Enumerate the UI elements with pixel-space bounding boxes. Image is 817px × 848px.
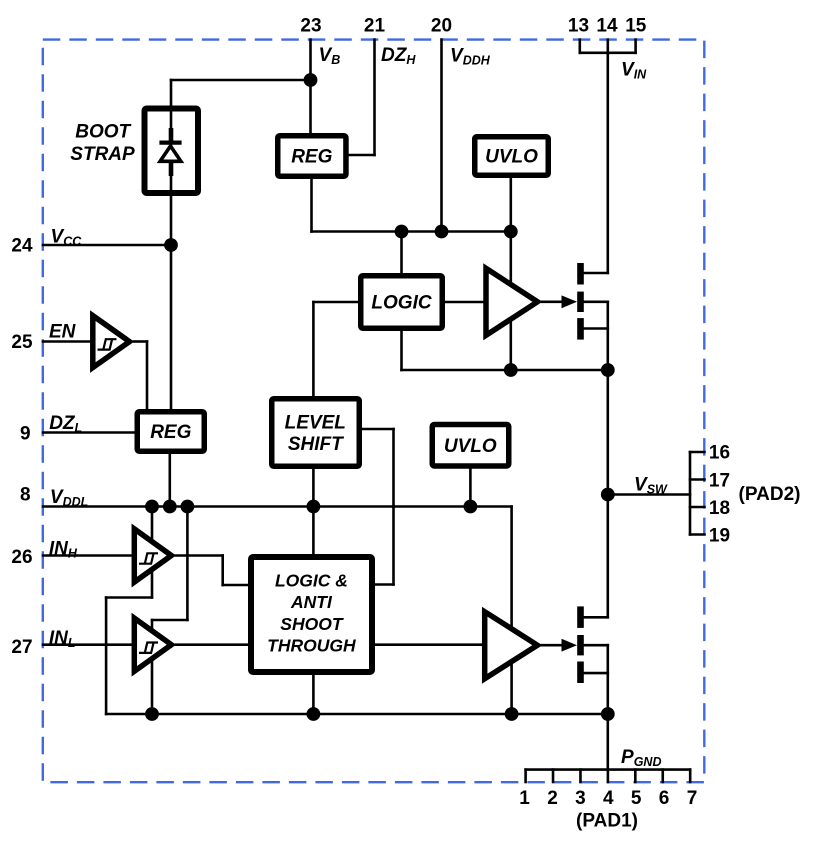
svg-text:21: 21 <box>364 16 386 37</box>
svg-text:SHIFT: SHIFT <box>288 434 344 455</box>
svg-text:LOGIC &: LOGIC & <box>275 571 348 591</box>
svg-text:LEVEL: LEVEL <box>285 413 346 434</box>
svg-text:1: 1 <box>519 788 530 809</box>
svg-text:UVLO: UVLO <box>485 147 538 168</box>
svg-text:7: 7 <box>687 788 698 809</box>
svg-text:5: 5 <box>631 788 642 809</box>
svg-text:UVLO: UVLO <box>444 436 497 457</box>
svg-text:23: 23 <box>300 16 321 37</box>
svg-text:27: 27 <box>11 637 32 658</box>
svg-text:15: 15 <box>625 16 647 37</box>
svg-text:9: 9 <box>20 424 31 445</box>
svg-text:BOOT: BOOT <box>75 122 131 143</box>
svg-text:24: 24 <box>11 236 33 257</box>
svg-text:REG: REG <box>150 422 191 443</box>
svg-text:(PAD2): (PAD2) <box>739 484 801 505</box>
svg-text:EN: EN <box>49 322 77 343</box>
svg-text:REG: REG <box>291 147 332 168</box>
svg-text:25: 25 <box>11 332 33 353</box>
svg-text:STRAP: STRAP <box>70 144 135 165</box>
svg-text:18: 18 <box>709 498 730 519</box>
svg-text:3: 3 <box>575 788 586 809</box>
svg-text:8: 8 <box>20 485 31 506</box>
svg-text:ANTI: ANTI <box>290 592 333 612</box>
svg-text:2: 2 <box>547 788 558 809</box>
svg-text:THROUGH: THROUGH <box>267 636 356 656</box>
svg-text:26: 26 <box>11 547 32 568</box>
svg-text:13: 13 <box>568 16 589 37</box>
svg-text:19: 19 <box>709 526 730 547</box>
svg-text:6: 6 <box>659 788 670 809</box>
svg-text:20: 20 <box>431 16 452 37</box>
svg-text:LOGIC: LOGIC <box>371 293 431 314</box>
svg-text:14: 14 <box>596 16 618 37</box>
svg-text:4: 4 <box>603 788 614 809</box>
svg-text:17: 17 <box>709 470 730 491</box>
svg-text:(PAD1): (PAD1) <box>576 811 638 832</box>
svg-text:16: 16 <box>709 443 730 464</box>
svg-text:SHOOT: SHOOT <box>280 614 344 634</box>
